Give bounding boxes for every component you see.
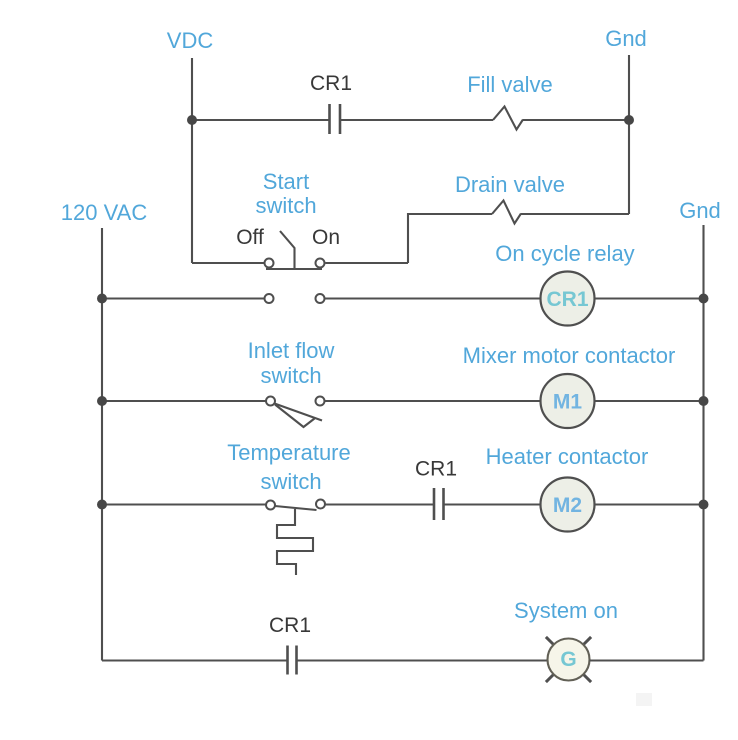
wire M2 rung left — [102, 503, 266, 505]
junction Gnd rail / rung 1 — [624, 115, 634, 125]
svg-text:Off: Off — [236, 226, 264, 249]
junction VDC rail / rung 1 — [187, 115, 197, 125]
svg-text:On cycle relay: On cycle relay — [495, 241, 634, 266]
contactor coil M1 — [541, 374, 595, 428]
wire bottom rung left — [102, 659, 288, 661]
wire rung 1 left segment — [192, 119, 330, 121]
svg-text:VDC: VDC — [167, 28, 214, 53]
svg-text:System on: System on — [514, 598, 618, 623]
flow switch paddle — [275, 405, 315, 428]
wire relay rung left — [102, 297, 265, 299]
svg-text:CR1: CR1 — [269, 614, 311, 637]
wire drain valve rung left — [408, 214, 492, 263]
svg-text:Start: Start — [263, 169, 309, 194]
flow switch right contact — [316, 397, 325, 406]
wire relay rung right — [595, 297, 704, 299]
switch S1 On contact — [316, 259, 325, 268]
wire start switch rung left — [192, 262, 265, 264]
wire M1 rung right — [595, 400, 704, 402]
switch S1 Off contact — [265, 259, 274, 268]
wire bottom rung middle — [297, 659, 548, 661]
svg-text:switch: switch — [260, 469, 321, 494]
wire rung 1 middle segment — [340, 119, 493, 121]
wire VDC rail — [191, 58, 193, 263]
svg-text:Temperature: Temperature — [227, 440, 351, 465]
svg-text:Gnd: Gnd — [679, 198, 721, 223]
contact CR1 bottom — [288, 646, 297, 675]
wire M2 rung middle1 — [325, 503, 434, 505]
svg-text:Gnd: Gnd — [605, 26, 647, 51]
contact CR1 M2 rung — [434, 488, 444, 520]
svg-text:Mixer motor contactor: Mixer motor contactor — [463, 343, 676, 368]
pilot light G — [546, 637, 591, 682]
junction right rail / relay rung — [699, 294, 709, 304]
junction left rail / M2 rung — [97, 500, 107, 510]
svg-text:M2: M2 — [553, 494, 582, 517]
wire 120 VAC rail — [101, 228, 103, 661]
switch S1 pole2 On contact — [316, 294, 325, 303]
svg-text:Drain valve: Drain valve — [455, 172, 565, 197]
svg-text:Fill valve: Fill valve — [467, 72, 553, 97]
svg-text:switch: switch — [260, 363, 321, 388]
junction left rail / M1 rung — [97, 396, 107, 406]
contactor coil M2 — [541, 478, 595, 532]
wire Gnd rail top — [628, 55, 630, 214]
temperature switch blade — [275, 506, 317, 510]
wire M1 rung middle — [325, 400, 541, 402]
svg-text:Heater contactor: Heater contactor — [486, 444, 649, 469]
wire bottom rung right — [590, 659, 704, 661]
temperature switch left contact — [266, 501, 275, 510]
svg-text:On: On — [312, 226, 340, 249]
wire M2 rung right — [595, 503, 704, 505]
fill valve symbol — [493, 107, 523, 130]
wire relay rung middle — [325, 297, 541, 299]
svg-text:CR1: CR1 — [415, 458, 457, 481]
switch S1 lever — [280, 231, 295, 269]
wire M2 rung middle2 — [444, 503, 541, 505]
svg-text:switch: switch — [255, 193, 316, 218]
flow switch blade — [275, 404, 323, 421]
switch S1 pole2 Off contact — [265, 294, 274, 303]
svg-text:120 VAC: 120 VAC — [61, 200, 148, 225]
drain valve symbol — [492, 201, 521, 224]
junction right rail / M2 rung — [699, 500, 709, 510]
svg-text:M1: M1 — [553, 391, 582, 414]
temperature switch actuator — [277, 509, 313, 575]
svg-text:Inlet flow: Inlet flow — [248, 338, 335, 363]
flow switch left contact — [266, 397, 275, 406]
svg-text:CR1: CR1 — [310, 72, 352, 95]
temperature switch right contact — [316, 500, 325, 509]
svg-text:CR1: CR1 — [546, 288, 588, 311]
junction right rail / M1 rung — [699, 396, 709, 406]
wire rung 1 right segment — [523, 119, 629, 121]
wire start switch rung right — [326, 262, 409, 264]
junction left rail / relay rung — [97, 294, 107, 304]
wire M1 rung left — [102, 400, 266, 402]
svg-text:G: G — [560, 648, 576, 671]
wire drain valve rung right — [521, 213, 629, 215]
relay coil CR1 — [541, 272, 595, 326]
wire right Gnd rail — [702, 225, 704, 661]
switch S1 movable bar — [266, 268, 322, 270]
contact CR1 rung 1 — [330, 104, 341, 134]
